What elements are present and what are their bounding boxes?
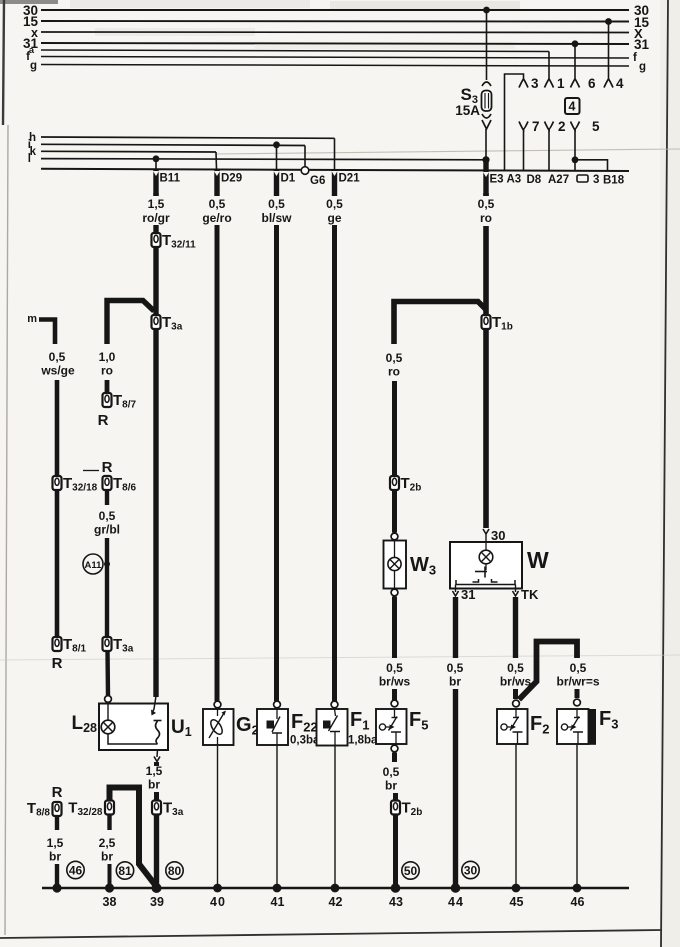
wire m elbow ws/ge (39, 320, 55, 345)
node D21 (332, 170, 361, 197)
terminal T8/1 (53, 636, 87, 655)
svg-text:0,5: 0,5 (386, 351, 403, 365)
pin 30 arrow of W (483, 528, 505, 543)
svg-text:46: 46 (571, 895, 585, 909)
bus X (31, 26, 643, 41)
ground rail (42, 887, 629, 890)
svg-text:40: 40 (210, 895, 226, 909)
pressure switch F5 (376, 709, 428, 744)
wire D21 to F1 (332, 193, 337, 196)
svg-text:4: 4 (616, 76, 624, 91)
svg-text:ge/ro: ge/ro (202, 211, 231, 225)
svg-text:br/ws: br/ws (379, 675, 411, 689)
wire T2b to ground track43 (393, 815, 398, 889)
pin circle F1 (331, 701, 338, 708)
pin circle F2 (513, 700, 520, 707)
svg-text:D29: D29 (221, 173, 242, 185)
svg-text:br: br (49, 850, 61, 864)
svg-text:0,5: 0,5 (507, 661, 524, 675)
terminal T8/7 (103, 392, 137, 411)
junction dot bus-l / B11 (153, 155, 160, 162)
svg-text:2,5: 2,5 (99, 836, 116, 850)
junction dot bus30 / S3 wire (483, 7, 490, 14)
lamp L28 inner wire to U1 (108, 734, 158, 744)
svg-text:15A: 15A (455, 103, 480, 118)
svg-text:br: br (449, 675, 461, 689)
bus i (28, 139, 305, 151)
svg-text:44: 44 (448, 895, 464, 909)
lamp L28 (71, 703, 114, 736)
pressure switch F3 (557, 708, 618, 745)
wire connector7 to D8 (523, 129, 525, 171)
svg-text:1,5: 1,5 (146, 764, 163, 778)
terminal T2b (lower) (391, 800, 422, 819)
svg-text:4: 4 (569, 100, 576, 114)
wire F2 to ground track45 (515, 744, 517, 888)
pin circle W3 top (391, 533, 398, 540)
wire bus15 to connector 4 (608, 22, 610, 80)
junction dot connector5 branch (572, 156, 579, 163)
junction dot bus-i / D1 (273, 141, 280, 148)
svg-text:TK: TK (521, 587, 539, 602)
component box L28 / U1 (99, 704, 168, 751)
connector 2 (545, 119, 566, 134)
connector below fuse S3 (482, 114, 491, 118)
svg-text:5: 5 (592, 119, 600, 134)
svg-text:30: 30 (491, 528, 505, 543)
svg-text:A27: A27 (548, 174, 569, 186)
svg-text:0,5: 0,5 (383, 765, 400, 779)
connector above fuse S3 (482, 82, 491, 86)
horn / relay W (450, 542, 549, 589)
circled 81 (116, 862, 133, 879)
svg-text:45: 45 (510, 895, 524, 909)
svg-text:81: 81 (118, 864, 132, 878)
svg-text:g: g (639, 61, 646, 73)
svg-text:46: 46 (69, 864, 83, 878)
wire G2 to ground (217, 745, 219, 888)
pin circle F5 top (391, 700, 398, 707)
wire E3 to T1b (483, 193, 489, 196)
svg-text:ro/gr: ro/gr (142, 211, 170, 225)
svg-text:D8: D8 (527, 174, 542, 186)
warning lamp W3 (384, 541, 437, 589)
svg-text:g: g (30, 60, 37, 72)
wire D1 to F22 (274, 193, 279, 196)
connector 3 (519, 76, 539, 91)
node D1 (274, 170, 296, 197)
bus f (26, 51, 637, 64)
svg-text:W: W (527, 547, 549, 573)
wire 1,0 ro elbow to B11 wire (107, 301, 154, 345)
wire T1b to W pin30 (483, 329, 489, 528)
node G6 circle (301, 167, 325, 187)
svg-text:A3: A3 (507, 174, 522, 186)
svg-text:l: l (28, 153, 31, 165)
svg-text:R: R (98, 412, 109, 429)
wire ws/ge to T32/18 (55, 380, 60, 476)
stabilizer U1 (151, 696, 192, 744)
junction dot bus-l / E3 (482, 156, 489, 163)
bottom bus line (41, 169, 629, 171)
svg-text:1,0: 1,0 (99, 350, 116, 364)
svg-text:41: 41 (271, 895, 285, 909)
node A11 (83, 554, 110, 574)
svg-text:0,5: 0,5 (570, 661, 587, 675)
wire stub to F3 (575, 689, 580, 698)
wire elbow F2 to F3 branch (519, 642, 577, 700)
wire U1 to T3a 1,5 br (154, 762, 159, 766)
pin circle F5 bottom (391, 745, 398, 752)
wire connector2 to A27 (548, 129, 550, 171)
wire T3a to U1 (153, 329, 158, 697)
svg-text:ws/ge: ws/ge (40, 364, 75, 378)
bus 31 (23, 36, 650, 52)
connector 1 (545, 76, 566, 91)
wire TK down 0,5 br/ws (513, 597, 518, 658)
svg-text:gr/bl: gr/bl (94, 523, 120, 537)
svg-text:3: 3 (531, 76, 539, 91)
svg-text:E3: E3 (490, 174, 504, 186)
terminal T2b (upper) (390, 475, 421, 494)
connector 6 (571, 76, 597, 91)
wire T3a to L28 pin (105, 651, 110, 696)
svg-text:f: f (633, 52, 637, 64)
pin 31 of W (453, 585, 476, 603)
wire B11 to T32/11 (153, 193, 158, 196)
label R above T8/6 with dash (83, 459, 113, 476)
svg-text:B11: B11 (160, 173, 181, 185)
svg-text:br: br (148, 778, 160, 792)
bus 15 (23, 14, 650, 30)
bus g (30, 60, 646, 73)
svg-text:A11: A11 (85, 560, 103, 571)
wire branch E3 to W3 (394, 302, 486, 345)
connector 4 (604, 76, 624, 91)
svg-text:6: 6 (588, 76, 596, 91)
bus l (28, 153, 486, 165)
wire ro to T8/7 (105, 380, 110, 393)
terminal T32/28 (68, 800, 114, 819)
terminal T8/8 (27, 800, 62, 819)
svg-text:ro: ro (480, 211, 492, 225)
svg-text:br/ws: br/ws (500, 675, 532, 689)
svg-text:1: 1 (557, 76, 565, 91)
svg-text:D1: D1 (281, 173, 296, 185)
wire W3 to F5 (392, 597, 397, 659)
node D29 (214, 170, 242, 197)
wire stub to F5 (392, 689, 397, 700)
pin circle W3 bottom (391, 589, 398, 596)
svg-text:bl/sw: bl/sw (261, 211, 292, 225)
svg-text:0,5: 0,5 (268, 197, 285, 211)
wire T32/18 to T8/1 (55, 490, 60, 637)
svg-text:br/wr=s: br/wr=s (556, 675, 599, 689)
pin circle F3 (574, 699, 581, 706)
connector 7 (519, 119, 540, 134)
wire loop T32/28 to track39 (110, 788, 157, 887)
pin circle L28 (105, 696, 112, 703)
sensor G2 (203, 709, 259, 745)
svg-text:br: br (385, 779, 397, 793)
svg-text:ro: ro (101, 364, 113, 378)
wire F3 to ground track46 (576, 745, 578, 888)
bus 30 (23, 3, 649, 18)
wire fuse S3 to node E3 (485, 129, 487, 160)
terminal T3a (br bottom) (152, 800, 184, 819)
node E3 (483, 160, 504, 196)
wire T3a to ground track39 (154, 815, 159, 889)
svg-text:38: 38 (103, 895, 117, 909)
junction dot bus15 / connector4 wire (605, 18, 612, 25)
svg-text:3: 3 (593, 174, 599, 186)
svg-text:39: 39 (150, 895, 164, 909)
svg-text:R: R (102, 459, 113, 476)
pressure switch F1 1,8bar (317, 709, 383, 747)
connector 5 (571, 119, 601, 134)
wire D1 drop (276, 145, 278, 169)
wire gr/bl to T3a (105, 538, 109, 637)
wire bus-k to D29 (215, 152, 218, 169)
terminal T32/18 (53, 475, 98, 494)
terminal T8/6 (103, 475, 137, 494)
wire bus-a to connector 1 (548, 52, 550, 80)
pin circle F22 (274, 701, 281, 708)
wire D29 to G2 (215, 193, 220, 196)
svg-text:R: R (52, 784, 63, 801)
wire ro to T2b (392, 381, 397, 476)
svg-text:D21: D21 (339, 173, 361, 185)
svg-text:0,5: 0,5 (447, 661, 464, 675)
boxed label 4 (565, 98, 580, 114)
svg-text:R: R (52, 655, 63, 672)
wire T2b to W3 (392, 490, 397, 533)
bus k (30, 146, 216, 158)
svg-text:B18: B18 (603, 175, 625, 187)
wire T8/6 down gr/bl (105, 490, 109, 505)
wire bus-i corner to G6 (304, 146, 306, 168)
pin TK of W (513, 585, 539, 603)
circled 50 (402, 862, 419, 879)
svg-text:G6: G6 (310, 175, 325, 187)
wire bus31 to connector 6 (574, 44, 576, 79)
svg-text:30: 30 (464, 864, 478, 878)
node box3 label (577, 174, 599, 186)
terminal T32/11 (152, 232, 197, 251)
svg-text:80: 80 (168, 864, 182, 878)
pressure switch F2 (497, 709, 549, 744)
svg-text:br: br (101, 850, 113, 864)
svg-text:ge: ge (327, 211, 341, 225)
pin circle G2 (214, 701, 221, 708)
svg-text:42: 42 (329, 895, 343, 909)
svg-text:m: m (27, 313, 37, 325)
wire B11 drop (155, 159, 157, 169)
circled 46 (67, 861, 84, 878)
svg-text:0,5: 0,5 (386, 661, 403, 675)
node B11 (153, 170, 181, 197)
wire bus30 to fuse S3 (486, 10, 488, 80)
svg-text:50: 50 (404, 864, 418, 878)
circled 30 (462, 861, 479, 878)
svg-text:31: 31 (461, 587, 475, 602)
junction dot bus31 / connector6 wire (572, 40, 579, 47)
svg-text:1,5: 1,5 (148, 197, 165, 211)
wire T32/11 to T3a (153, 247, 158, 315)
circled 80 (166, 862, 183, 879)
svg-text:43: 43 (389, 895, 403, 909)
terminal T3a (B11 wire) (152, 314, 183, 333)
svg-text:0,5: 0,5 (209, 197, 226, 211)
wire bus-h corner to D21 (334, 138, 336, 169)
svg-text:0,5: 0,5 (326, 197, 343, 211)
svg-text:0,5: 0,5 (478, 197, 495, 211)
bus h (29, 132, 335, 144)
terminal T3a (gr/bl) (103, 636, 134, 655)
wire T8/8 down 1,5 br (55, 816, 59, 830)
svg-text:1,5: 1,5 (47, 836, 64, 850)
wire connector3 bracket to A3 (505, 74, 524, 171)
svg-text:0,5: 0,5 (99, 509, 116, 523)
svg-text:31: 31 (634, 37, 650, 52)
bus a (29, 45, 549, 56)
wire F22 to ground (276, 745, 278, 888)
svg-text:ro: ro (388, 365, 400, 379)
wire U1 output arrow (154, 750, 160, 762)
pressure switch F22 0,3bar (257, 709, 324, 747)
terminal T1b (482, 314, 513, 333)
svg-text:7: 7 (532, 119, 540, 134)
wire W31 down 0,5 br (453, 597, 458, 658)
fuse S3 15A (455, 85, 491, 118)
svg-text:2: 2 (558, 119, 566, 134)
wire F5 down 0,5 br (392, 753, 397, 763)
wire connector5 down to bus with branch to B18 (575, 129, 608, 171)
wire T32/28 down 2,5 br (107, 815, 111, 831)
junction dots on ground rail (52, 883, 61, 892)
svg-text:0,5: 0,5 (49, 350, 66, 364)
wire F1 to ground (334, 746, 336, 889)
